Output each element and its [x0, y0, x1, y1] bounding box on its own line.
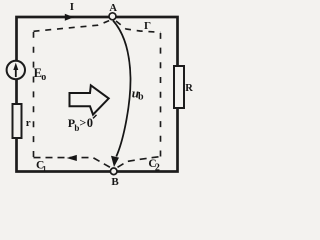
svg-text:Γ: Γ: [144, 20, 151, 32]
big power-flow arrow: [70, 85, 109, 114]
svg-text:b: b: [138, 91, 144, 102]
wire contour left edge (dashed): [33, 32, 35, 157]
resistor R: [174, 66, 184, 108]
wire contour top-left segment (dashed, to node A): [34, 21, 110, 32]
wire contour top-right segment (dashed, from node A): [116, 21, 161, 32]
svg-text:0: 0: [87, 116, 93, 130]
voltage arrow Ub (curved from A to B): [113, 21, 131, 157]
contour direction arrow (leftward) on C1: [67, 155, 77, 161]
wire contour bottom-right segment C2 (dashed, from node B): [118, 157, 161, 168]
wire contour right edge (dashed): [160, 33, 162, 157]
node A: [109, 13, 116, 20]
svg-text:2: 2: [155, 163, 160, 174]
svg-text:r: r: [26, 117, 31, 129]
wire outer circuit loop: [17, 17, 178, 172]
svg-text:B: B: [111, 176, 119, 188]
resistor r: [13, 104, 22, 138]
svg-text:1: 1: [43, 164, 47, 173]
svg-text:o: o: [41, 72, 46, 83]
current arrow I on top wire: [65, 14, 74, 21]
svg-text:I: I: [70, 1, 74, 13]
svg-text:A: A: [109, 3, 117, 14]
wire contour bottom-left segment C1 (dashed): [34, 158, 111, 168]
svg-text:>: >: [79, 116, 86, 130]
source E0 (circle with up arrow): [7, 61, 25, 79]
node B: [110, 168, 117, 175]
svg-text:R: R: [185, 83, 193, 94]
